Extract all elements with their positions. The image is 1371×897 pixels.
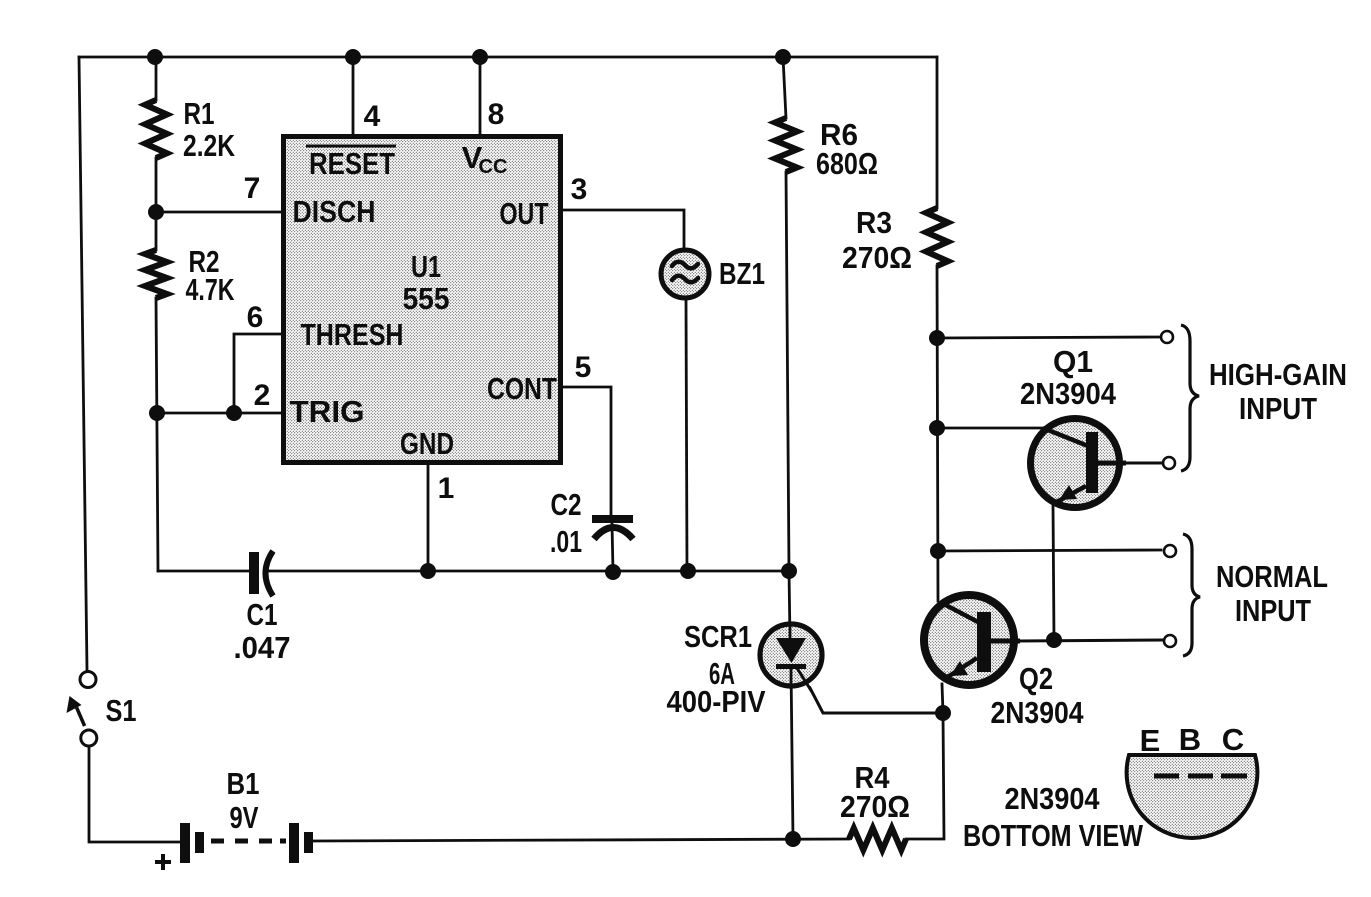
svg-text:RESET: RESET [309,146,395,181]
svg-text:HIGH-GAIN: HIGH-GAIN [1209,357,1347,392]
svg-text:270Ω: 270Ω [840,789,910,824]
svg-text:CONT: CONT [487,371,557,406]
svg-text:2: 2 [254,379,271,412]
svg-text:2N3904: 2N3904 [1005,781,1101,816]
svg-text:NORMAL: NORMAL [1216,559,1328,594]
svg-text:.047: .047 [234,630,291,665]
svg-text:680Ω: 680Ω [816,146,878,181]
svg-text:7: 7 [244,172,261,205]
svg-text:BOTTOM VIEW: BOTTOM VIEW [963,818,1144,853]
svg-text:BZ1: BZ1 [719,256,765,291]
svg-text:400-PIV: 400-PIV [667,684,766,719]
svg-text:3: 3 [571,173,588,206]
svg-text:OUT: OUT [500,196,549,231]
svg-text:2N3904: 2N3904 [1020,376,1117,411]
svg-text:U1: U1 [411,249,441,284]
svg-text:S1: S1 [106,693,137,728]
svg-text:INPUT: INPUT [1235,593,1311,628]
svg-text:6: 6 [247,301,264,334]
svg-text:R3: R3 [856,205,892,240]
svg-text:5: 5 [575,351,592,384]
svg-text:SCR1: SCR1 [684,619,752,654]
svg-text:C: C [1222,722,1244,757]
svg-text:R1: R1 [184,96,215,131]
svg-text:Q2: Q2 [1019,661,1053,696]
svg-text:4.7K: 4.7K [186,272,235,307]
svg-text:C1: C1 [247,597,278,632]
svg-text:9V: 9V [230,800,259,835]
svg-text:E: E [1140,723,1161,758]
svg-text:INPUT: INPUT [1239,391,1317,426]
svg-text:.01: .01 [550,524,582,559]
svg-text:B1: B1 [227,766,260,801]
svg-text:DISCH: DISCH [293,194,376,229]
svg-text:1: 1 [438,472,455,505]
svg-text:GND: GND [400,426,454,461]
svg-text:2.2K: 2.2K [183,128,235,163]
svg-text:4: 4 [364,100,381,133]
svg-text:2N3904: 2N3904 [991,695,1085,730]
svg-text:TRIG: TRIG [290,394,365,429]
svg-text:THRESH: THRESH [301,317,404,352]
svg-text:555: 555 [403,281,450,316]
svg-text:C2: C2 [551,487,582,522]
svg-text:Q1: Q1 [1053,344,1093,379]
svg-text:CC: CC [479,156,508,178]
svg-text:8: 8 [488,98,505,131]
svg-text:270Ω: 270Ω [842,240,912,275]
svg-text:B: B [1179,722,1201,757]
